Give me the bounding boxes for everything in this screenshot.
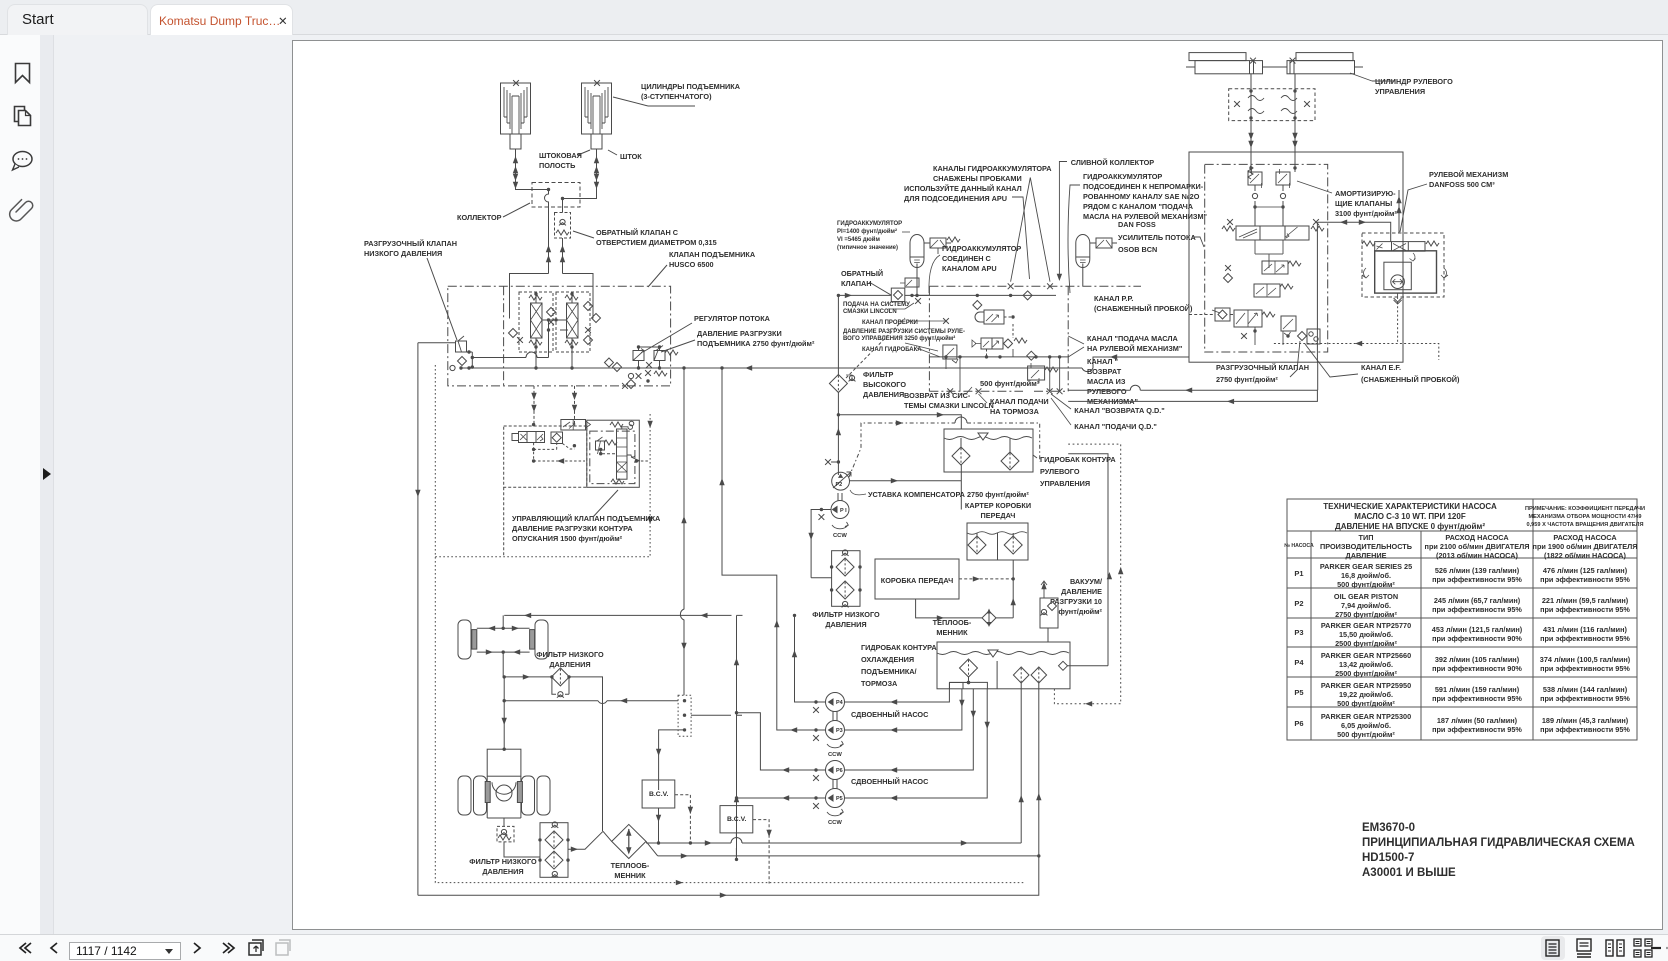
B.C.V. valve 2 (720, 806, 753, 833)
steering unit gerotor (1362, 251, 1448, 304)
pilot valve b (1254, 284, 1293, 297)
svg-text:ДАВЛЕНИЕ РАЗГРУЗКИ: ДАВЛЕНИЕ РАЗГРУЗКИ (697, 329, 782, 338)
rear brake packs (485, 782, 522, 803)
label: steering tank (1040, 455, 1116, 488)
rear axle differential housing (487, 749, 521, 818)
label: return from steering (1087, 357, 1138, 406)
svg-text:ДЛЯ ПОДСОЕДИНЕНИЯ APU: ДЛЯ ПОДСОЕДИНЕНИЯ APU (904, 194, 1007, 203)
svg-text:(1822 об/мин НАСОСА): (1822 об/мин НАСОСА) (1544, 551, 1626, 560)
label: 500 psi (980, 379, 1040, 388)
svg-text:КАНАЛ ГИДРОБАКА: КАНАЛ ГИДРОБАКА (862, 347, 922, 353)
svg-text:EM3670-0: EM3670-0 (1362, 822, 1415, 834)
comments icon (13, 152, 33, 171)
svg-text:ДАВЛЕНИЕ: ДАВЛЕНИЕ (1346, 551, 1387, 560)
svg-text:453 л/мин (121,5 гал/мин): 453 л/мин (121,5 гал/мин) (1432, 625, 1523, 634)
brake manifold dash-dot box (929, 286, 1068, 391)
svg-text:591 л/мин (159 гал/мин): 591 л/мин (159 гал/мин) (1435, 685, 1520, 694)
wire: x=736.5 down-run (736, 615, 738, 859)
label: low pressure relief valve (364, 239, 457, 258)
svg-text:ЦИЛИНДР РУЛЕВОГО: ЦИЛИНДР РУЛЕВОГО (1375, 77, 1453, 86)
svg-text:500 фунт/дюйм²: 500 фунт/дюйм² (1337, 580, 1395, 589)
svg-text:500 фунт/дюйм²: 500 фунт/дюйм² (1337, 699, 1395, 708)
svg-text:P4: P4 (1294, 658, 1304, 667)
shock valve 1 (1248, 166, 1262, 199)
label: tank port (862, 347, 922, 353)
svg-text:ДАВЛЕНИЕ РАЗГРУЗКИ СИСТЕМЫ РУЛ: ДАВЛЕНИЕ РАЗГРУЗКИ СИСТЕМЫ РУЛЕ- (843, 329, 965, 335)
svg-text:КАНАЛ "ПОДАЧИ Q.D.": КАНАЛ "ПОДАЧИ Q.D." (1074, 422, 1157, 431)
svg-text:7,94 дюйм/об.: 7,94 дюйм/об. (1341, 601, 1391, 610)
svg-text:АМОРТИЗИРУЮ-: АМОРТИЗИРУЮ- (1335, 189, 1396, 198)
svg-text:КАРТЕР КОРОБКИ: КАРТЕР КОРОБКИ (965, 501, 1031, 510)
svg-text:476 л/мин (125 гал/мин): 476 л/мин (125 гал/мин) (1543, 566, 1628, 575)
svg-text:ГИДРОБАК КОНТУРА: ГИДРОБАК КОНТУРА (861, 643, 937, 652)
svg-text:CCW: CCW (828, 820, 842, 826)
pilot valve a (1262, 261, 1301, 274)
pump rotation CCW (832, 522, 848, 529)
pages icon (15, 107, 31, 126)
label: hoist valve HUSCO 6500 (669, 250, 756, 269)
pilot solenoid valve (512, 432, 545, 443)
svg-text:РАСХОД НАСОСА: РАСХОД НАСОСА (1553, 533, 1617, 542)
svg-text:ОТВЕРСТИЕМ ДИАМЕТРОМ 0,315: ОТВЕРСТИЕМ ДИАМЕТРОМ 0,315 (596, 238, 717, 247)
svg-text:OIL GEAR PISTON: OIL GEAR PISTON (1334, 592, 1398, 601)
label: drain collector (1071, 158, 1155, 167)
hoist spool 2 (565, 294, 578, 347)
label: low pressure filter (front) (536, 650, 604, 669)
svg-text:РОВАННОМУ КАНАЛУ SAE №2O: РОВАННОМУ КАНАЛУ SAE №2O (1083, 192, 1200, 201)
port symbols around spools (509, 329, 518, 338)
label: vacuum relief (1050, 577, 1102, 616)
wire: heat exchanger out long line (658, 689, 1039, 856)
svg-text:19,22 дюйм/об.: 19,22 дюйм/об. (1339, 690, 1393, 699)
leader V to plugged ports (1011, 178, 1050, 282)
pdf page (292, 40, 1663, 930)
svg-text:ОБРАТНЫЙ КЛАПАН С: ОБРАТНЫЙ КЛАПАН С (596, 228, 679, 237)
svg-text:ОБРАТНЫЙ: ОБРАТНЫЙ (841, 269, 883, 278)
wire: cooling return long line (646, 689, 1021, 843)
amplifier proportional spool (1222, 219, 1324, 240)
svg-text:при эффективности 95%: при эффективности 95% (1432, 725, 1522, 734)
accumulator 1 bleed valve (930, 238, 946, 248)
svg-text:СЛИВНОЙ КОЛЛЕКТОР: СЛИВНОЙ КОЛЛЕКТОР (1071, 158, 1155, 167)
label: rod (620, 152, 642, 161)
svg-text:DANFOSS 500 CM³: DANFOSS 500 CM³ (1429, 180, 1495, 189)
label: low pressure filter (rear) (469, 857, 537, 876)
svg-text:ТЕПЛООБ-: ТЕПЛООБ- (933, 618, 972, 627)
rear axle: right wheels (522, 776, 535, 815)
hoist spool 1 (529, 294, 542, 347)
label: accumulator ports plugged (933, 164, 1052, 183)
label: hoist control valve (512, 514, 661, 543)
pump P4 (826, 693, 845, 712)
svg-text:УСТАВКА КОМПЕНСАТОРА 2750 фунт: УСТАВКА КОМПЕНСАТОРА 2750 фунт/дюйм² (868, 490, 1029, 499)
svg-text:PARKER GEAR NTP25950: PARKER GEAR NTP25950 (1321, 681, 1411, 690)
steering cylinder right (1263, 53, 1364, 74)
svg-text:фунт/дюйм²: фунт/дюйм² (1058, 607, 1102, 616)
svg-text:P3: P3 (1294, 628, 1303, 637)
svg-text:при эффективности 95%: при эффективности 95% (1540, 664, 1630, 673)
accumulator charge valve w/ gauge (972, 338, 1027, 349)
hoist cylinder 1 (3-stage telescopic) (501, 80, 531, 149)
label: return from lincoln (904, 391, 994, 410)
svg-text:ШТОКОВАЯ: ШТОКОВАЯ (539, 151, 582, 160)
svg-text:500 фунт/дюйм²: 500 фунт/дюйм² (1337, 730, 1395, 739)
svg-text:ТЕХНИЧЕСКИЕ ХАРАКТЕРИСТИКИ НАС: ТЕХНИЧЕСКИЕ ХАРАКТЕРИСТИКИ НАСОСА (1323, 502, 1497, 511)
svg-text:при эффективности 95%: при эффективности 95% (1540, 725, 1630, 734)
svg-text:(СНАБЖЕННЫЙ ПРОБКОЙ): (СНАБЖЕННЫЙ ПРОБКОЙ) (1361, 375, 1460, 384)
svg-text:HD1500-7: HD1500-7 (1362, 852, 1414, 864)
wire: cyl1 rod line down to collector (516, 149, 549, 190)
low pressure relief valve (left section) (456, 341, 467, 352)
svg-text:ДАВЛЕНИЯ: ДАВЛЕНИЯ (825, 620, 866, 629)
label: supply QD port (1074, 422, 1157, 431)
svg-text:СДВОЕННЫЙ НАСОС: СДВОЕННЫЙ НАСОС (851, 710, 929, 719)
left sidebar (0, 35, 40, 934)
wire: steering unit riser (1398, 190, 1400, 233)
pilot check ball (551, 432, 563, 444)
node dots on gallery (459, 366, 462, 369)
svg-text:КАНАЛ "ПОДАЧА МАСЛА: КАНАЛ "ПОДАЧА МАСЛА (1087, 334, 1178, 343)
svg-text:МАСЛО C-3 10 WT. ПРИ 120F: МАСЛО C-3 10 WT. ПРИ 120F (1354, 512, 1466, 521)
front brake packs (472, 630, 535, 650)
svg-text:P5: P5 (1294, 688, 1303, 697)
label: transmission sump (965, 501, 1031, 520)
transmission sump tank (967, 523, 1028, 560)
check valve with 0.315 orifice (555, 213, 571, 239)
suspension cushion box (dashed) (1229, 89, 1315, 121)
svg-text:ВОГО УПРАВЛЕНИЯ 3250 фунт/дюйм: ВОГО УПРАВЛЕНИЯ 3250 фунт/дюйм² (843, 335, 955, 342)
svg-text:6,05 дюйм/об.: 6,05 дюйм/об. (1341, 721, 1391, 730)
svg-text:ПРОИЗВОДИТЕЛЬНОСТЬ: ПРОИЗВОДИТЕЛЬНОСТЬ (1320, 542, 1412, 551)
label: heat exchanger (611, 861, 650, 880)
svg-text:при эффективности 95%: при эффективности 95% (1540, 634, 1630, 643)
svg-text:КАНАЛОМ APU: КАНАЛОМ APU (942, 264, 997, 273)
svg-text:РУЛЕВОГО: РУЛЕВОГО (1087, 387, 1127, 396)
svg-text:392 л/мин (105 гал/мин): 392 л/мин (105 гал/мин) (1435, 655, 1520, 664)
leader rod cavity (578, 150, 590, 155)
front axle: right wheel (535, 620, 548, 659)
svg-text:УПРАВЛЕНИЯ: УПРАВЛЕНИЯ (1375, 87, 1425, 96)
hoist relief 2750 valve (654, 351, 665, 361)
wire: steering return standpipe (1068, 454, 1108, 666)
svg-text:PARKER GEAR SERIES 25: PARKER GEAR SERIES 25 (1320, 562, 1412, 571)
label: main tank (861, 643, 937, 688)
rear low pressure filter (538, 822, 569, 878)
wire: gearbox to heat exchanger (916, 599, 1014, 618)
svg-text:ГИДРОАККУМУЛЯТОР: ГИДРОАККУМУЛЯТОР (942, 244, 1021, 253)
wire: filter output to heat exchanger (568, 831, 603, 849)
svg-text:ПРИМЕЧАНИЕ: КОЭФФИЦИЕНТ ПЕРЕДА: ПРИМЕЧАНИЕ: КОЭФФИЦИЕНТ ПЕРЕДАЧИ (1525, 506, 1645, 512)
svg-text:VI =5465 дюйм: VI =5465 дюйм (837, 236, 880, 243)
copy page icon (249, 940, 263, 955)
svg-text:ПОДАЧА НА СИСТЕМУ: ПОДАЧА НА СИСТЕМУ (843, 302, 910, 308)
svg-text:РУЛЕВОГО: РУЛЕВОГО (1040, 467, 1080, 476)
label: steering relief 3250 (843, 329, 965, 342)
wire: P2 load-sense dashed line (849, 423, 1040, 477)
label: return QD port (1074, 406, 1164, 415)
label: check port (862, 320, 918, 326)
svg-text:ТИП: ТИП (1359, 533, 1374, 542)
svg-text:при эффективности 90%: при эффективности 90% (1432, 664, 1522, 673)
svg-text:ИСПОЛЬЗУЙТЕ ДАННЫЙ КАНАЛ: ИСПОЛЬЗУЙТЕ ДАННЫЙ КАНАЛ (904, 184, 1022, 193)
svg-text:при эффективности 95%: при эффективности 95% (1540, 575, 1630, 584)
heat exchanger (hoist/brake cooling) (603, 824, 658, 858)
svg-text:(2013 об/мин НАСОСА): (2013 об/мин НАСОСА) (1436, 551, 1518, 560)
label: accumulator connected to SAE20 (1083, 172, 1207, 221)
svg-text:245 л/мин (65,7 гал/мин): 245 л/мин (65,7 гал/мин) (1434, 596, 1521, 605)
svg-text:CCW: CCW (828, 752, 842, 758)
X plugs on manifold bottom (947, 388, 953, 394)
label: collector (457, 213, 502, 222)
svg-text:ПЕРЕДАЧ: ПЕРЕДАЧ (981, 511, 1016, 520)
rear axle: left wheels (458, 776, 471, 815)
steering unit control valve (1362, 241, 1439, 251)
wire: amp to steering unit supply (1317, 222, 1390, 362)
flow regulator valve (633, 351, 644, 361)
svg-text:ФИЛЬТР: ФИЛЬТР (863, 370, 894, 379)
svg-text:РУЛЕВОЙ МЕХАНИЗМ: РУЛЕВОЙ МЕХАНИЗМ (1429, 170, 1508, 179)
label: cylinders (641, 82, 741, 101)
svg-text:НА ТОРМОЗА: НА ТОРМОЗА (990, 407, 1040, 416)
flow amplifier block (1189, 152, 1403, 362)
svg-text:P4: P4 (836, 700, 844, 706)
view mode icons (1528, 935, 1668, 961)
svg-text:УПРАВЛЕНИЯ: УПРАВЛЕНИЯ (1040, 479, 1090, 488)
svg-text:УСИЛИТЕЛЬ ПОТОКА: УСИЛИТЕЛЬ ПОТОКА (1118, 233, 1196, 242)
front axle: left wheel (458, 620, 471, 659)
paperclip icon (10, 200, 33, 221)
svg-text:ЩИЕ КЛАПАНЫ: ЩИЕ КЛАПАНЫ (1335, 199, 1392, 208)
svg-text:КОЛЛЕКТОР: КОЛЛЕКТОР (457, 213, 502, 222)
label: use this port for APU (904, 184, 1022, 203)
svg-text:P1: P1 (1294, 569, 1303, 578)
svg-text:НИЗКОГО ДАВЛЕНИЯ: НИЗКОГО ДАВЛЕНИЯ (364, 249, 442, 258)
label: accumulator connected to APU (942, 244, 1021, 273)
svg-text:B.C.V.: B.C.V. (649, 791, 669, 798)
svg-text:B.C.V.: B.C.V. (727, 816, 747, 823)
svg-text:ПОДСОЕДИНЕН К НЕПРОМАРКИ-: ПОДСОЕДИНЕН К НЕПРОМАРКИ- (1083, 182, 1204, 191)
wire: P3 lines (722, 368, 962, 730)
steering circuit tank (944, 429, 1033, 472)
label: orifice check valve (596, 228, 717, 247)
svg-text:ФИЛЬТР НИЗКОГО: ФИЛЬТР НИЗКОГО (812, 610, 880, 619)
accumulator 2 bleed valve (1096, 238, 1112, 248)
svg-text:ГИДРОАККУМУЛЯТОР: ГИДРОАККУМУЛЯТОР (1083, 172, 1162, 181)
svg-text:КАНАЛ "ВОЗВРАТА Q.D.": КАНАЛ "ВОЗВРАТА Q.D." (1074, 406, 1164, 415)
wire: P5 lines (737, 689, 988, 798)
svg-text:СМАЗКИ LINCOLN: СМАЗКИ LINCOLN (843, 309, 897, 315)
svg-text:ОХЛАЖДЕНИЯ: ОХЛАЖДЕНИЯ (861, 655, 914, 664)
svg-text:ЦИЛИНДРЫ ПОДЪЕМНИКА: ЦИЛИНДРЫ ПОДЪЕМНИКА (641, 82, 741, 91)
wire: spools to main gallery (536, 347, 572, 368)
label: flow regulator (694, 314, 771, 323)
wire: left main drop line (417, 343, 419, 895)
label: EF port (1361, 363, 1460, 384)
svg-text:DAN FOSS: DAN FOSS (1118, 220, 1156, 229)
svg-text:16,8 дюйм/об.: 16,8 дюйм/об. (1341, 571, 1391, 580)
svg-text:ФИЛЬТР НИЗКОГО: ФИЛЬТР НИЗКОГО (536, 650, 604, 659)
spool pilot dashed boxes (519, 292, 553, 352)
wire: pump pressure riser x=838.4 (837, 295, 839, 475)
svg-text:№ НАСОСА: № НАСОСА (1284, 543, 1314, 549)
svg-text:РАЗГРУЗОЧНЫЙ КЛАПАН: РАЗГРУЗОЧНЫЙ КЛАПАН (1216, 363, 1309, 372)
sidebar expander arrow (43, 468, 51, 480)
front low pressure filter (503, 676, 552, 678)
steering relief valve (943, 345, 957, 359)
hoist valve block dash-dot outline (448, 286, 671, 386)
svg-text:МЕННИК: МЕННИК (614, 871, 646, 880)
pump P1 (parker gear) (831, 501, 849, 519)
svg-text:3100 фунт/дюйм²: 3100 фунт/дюйм² (1335, 209, 1397, 218)
svg-text:ДАВЛЕНИЯ: ДАВЛЕНИЯ (482, 867, 523, 876)
svg-text:ГИДРОАККУМУЛЯТОР: ГИДРОАККУМУЛЯТОР (837, 221, 902, 227)
svg-text:2750 фунт/дюйм²: 2750 фунт/дюйм² (1216, 375, 1278, 384)
svg-text:ВОЗВРАТ ИЗ СИС-: ВОЗВРАТ ИЗ СИС- (904, 391, 971, 400)
wire: drain collector dash-dot (929, 285, 1141, 287)
label: heat exchanger (transmission) (933, 618, 972, 637)
svg-text:(типичное значение): (типичное значение) (837, 245, 898, 251)
wire: P2/P1 shaft (838, 493, 842, 501)
svg-text:при эффективности 95%: при эффективности 95% (1540, 605, 1630, 614)
svg-text:ВЫСОКОГО: ВЫСОКОГО (863, 380, 906, 389)
svg-text:ДАВЛЕНИЯ: ДАВЛЕНИЯ (863, 390, 904, 399)
label: accumulator specs (837, 221, 902, 251)
svg-text:ОПУСКАНИЯ 1500 фунт/дюйм²: ОПУСКАНИЯ 1500 фунт/дюйм² (512, 534, 623, 543)
label: steering cylinder (1375, 77, 1453, 96)
svg-text:МАСЛА ИЗ: МАСЛА ИЗ (1087, 377, 1126, 386)
high pressure filter (829, 375, 847, 393)
label: hoist relief pressure 2750 (697, 329, 815, 348)
svg-text:ДАВЛЕНИЕ НА ВПУСКЕ 0 фунт/дюйм: ДАВЛЕНИЕ НА ВПУСКЕ 0 фунт/дюйм² (1335, 522, 1485, 531)
svg-text:2500 фунт/дюйм²: 2500 фунт/дюйм² (1335, 639, 1397, 648)
svg-text:ТОРМОЗА: ТОРМОЗА (861, 679, 898, 688)
leader rod (608, 150, 617, 155)
front axle lines (477, 615, 530, 677)
tab bar (0, 0, 1668, 35)
wire: cyl2 rod line down to collector (563, 149, 597, 199)
svg-text:при эффективности 95%: при эффективности 95% (1540, 694, 1630, 703)
heat exchanger (transmission) (982, 609, 996, 628)
svg-text:PARKER GEAR NTP25770: PARKER GEAR NTP25770 (1321, 621, 1411, 630)
label: PP port (1094, 294, 1193, 313)
label: high pressure filter (863, 370, 906, 399)
pump P2 (oil gear piston) (832, 472, 850, 490)
svg-text:при эффективности 90%: при эффективности 90% (1432, 634, 1522, 643)
hoist valve HUSCO 6500: solid cap (510, 274, 594, 319)
bottom toolbar (0, 934, 1668, 961)
svg-text:P6: P6 (1294, 719, 1303, 728)
wire: collector down to hoist valve (549, 207, 563, 274)
svg-text:189 л/мин (45,3 гал/мин): 189 л/мин (45,3 гал/мин) (1542, 716, 1629, 725)
leader to cylinder 2 (613, 97, 695, 106)
wire: gearbox load line dashed (959, 578, 1013, 580)
svg-text:P6: P6 (836, 768, 843, 774)
svg-text:2500 фунт/дюйм²: 2500 фунт/дюйм² (1335, 669, 1397, 678)
wire: return into steering tank (838, 415, 961, 429)
svg-text:PARKER GEAR NTP25300: PARKER GEAR NTP25300 (1321, 712, 1411, 721)
svg-text:ДАВЛЕНИЯ: ДАВЛЕНИЯ (549, 660, 590, 669)
svg-text:OSOB BCN: OSOB BCN (1118, 245, 1157, 254)
shuttle check (1298, 329, 1321, 344)
svg-text:P3: P3 (836, 728, 843, 734)
steering unit (danfoss) dashed box (1362, 233, 1444, 297)
steering cylinder left (1186, 53, 1263, 74)
label: compensator setting (868, 490, 1029, 499)
svg-text:PI=1400 фунт/дюйм²: PI=1400 фунт/дюйм² (837, 228, 897, 235)
pilot lines inside assembly (534, 443, 585, 461)
svg-text:МЕХАНИЗМА ОТБОРА МОЩНОСТИ 47/4: МЕХАНИЗМА ОТБОРА МОЩНОСТИ 47/49 (1529, 514, 1642, 520)
label: oil supply to steering (1087, 334, 1182, 353)
svg-text:СОЕДИНЕН С: СОЕДИНЕН С (942, 254, 992, 263)
svg-text:HUSCO 6500: HUSCO 6500 (669, 260, 714, 269)
pump P5 (826, 789, 845, 808)
pilot 2-position valve (561, 420, 591, 431)
svg-text:P2: P2 (836, 482, 843, 488)
tank breather valve (1040, 581, 1058, 642)
svg-text:(3-СТУПЕНЧАТОГО): (3-СТУПЕНЧАТОГО) (641, 92, 712, 101)
svg-text:15,50 дюйм/об.: 15,50 дюйм/об. (1339, 630, 1393, 639)
svg-text:0,959 X ЧАСТОТА ВРАЩЕНИЯ ДВИГА: 0,959 X ЧАСТОТА ВРАЩЕНИЯ ДВИГАТЕЛЯ (1527, 522, 1644, 528)
svg-text:538 л/мин (144 гал/мин): 538 л/мин (144 гал/мин) (1543, 685, 1628, 694)
wire: supply down-run x=684 (680, 368, 684, 695)
svg-text:КАНАЛ P.P.: КАНАЛ P.P. (1094, 294, 1133, 303)
pump P3 (826, 721, 845, 740)
svg-text:УПРАВЛЯЮЩИЙ КЛАПАН ПОДЪЕМНИКА: УПРАВЛЯЮЩИЙ КЛАПАН ПОДЪЕМНИКА (512, 514, 661, 523)
B.C.V. valve 1 (642, 780, 675, 808)
bookmark icon (16, 64, 30, 83)
wire: supply return below amp (1317, 362, 1319, 390)
cushion orifice symbols (1248, 96, 1264, 114)
svg-text:ВАКУУМ/: ВАКУУМ/ (1070, 577, 1102, 586)
svg-text:РАЗГРУЗОЧНЫЙ КЛАПАН: РАЗГРУЗОЧНЫЙ КЛАПАН (364, 239, 457, 248)
label: low pressure filter (transmission) (812, 610, 880, 629)
gearbox (875, 559, 959, 599)
svg-text:ДАВЛЕНИЕ: ДАВЛЕНИЕ (1061, 587, 1102, 596)
brake charge valve (975, 310, 1013, 326)
svg-text:187 л/мин (50 гал/мин): 187 л/мин (50 гал/мин) (1437, 716, 1518, 725)
pilot relief valve (596, 441, 605, 450)
svg-text:СНАБЖЕНЫ ПРОБКАМИ: СНАБЖЕНЫ ПРОБКАМИ (933, 174, 1022, 183)
svg-text:РЕГУЛЯТОР ПОТОКА: РЕГУЛЯТОР ПОТОКА (694, 314, 771, 323)
label: steering mechanism danfoss (1429, 170, 1508, 189)
node: collector ports, crossover jog (545, 190, 549, 208)
svg-text:КАНАЛЫ ГИДРОАККУМУЛЯТОРА: КАНАЛЫ ГИДРОАККУМУЛЯТОРА (933, 164, 1052, 173)
collector (dashed manifold) (532, 183, 580, 208)
brake manifold (dotted) (678, 695, 691, 736)
wire: main pressure gallery (418, 343, 1189, 368)
pump P6 (826, 761, 845, 780)
svg-text:431 л/мин (116 гал/мин): 431 л/мин (116 гал/мин) (1543, 625, 1627, 634)
small symbols right section (605, 358, 614, 367)
svg-text:(СНАБЖЕННЫЙ ПРОБКОЙ): (СНАБЖЕННЫЙ ПРОБКОЙ) (1094, 304, 1193, 313)
wire: P1 suction from filter (811, 510, 832, 578)
svg-text:P I: P I (840, 508, 847, 514)
shock valve 2 (1276, 169, 1290, 199)
label: check valve (841, 269, 883, 288)
svg-text:ПОЛОСТЬ: ПОЛОСТЬ (539, 161, 575, 170)
transmission low pressure filter (830, 550, 862, 608)
svg-text:A30001 И ВЫШЕ: A30001 И ВЫШЕ (1362, 867, 1456, 879)
hoist pilot valve assembly (dashed) (504, 426, 587, 487)
svg-text:ДАВЛЕНИЕ РАЗГРУЗКИ КОНТУРА: ДАВЛЕНИЕ РАЗГРУЗКИ КОНТУРА (512, 524, 633, 533)
svg-text:КАНАЛ ": КАНАЛ " (1087, 357, 1118, 366)
label: dan foss flow amplifier (1118, 220, 1196, 254)
check valve to lube (891, 288, 905, 302)
accumulator 2 (1076, 235, 1090, 268)
svg-text:НА РУЛЕВОЙ МЕХАНИЗМ": НА РУЛЕВОЙ МЕХАНИЗМ" (1087, 344, 1182, 353)
unloading valve 2750 (1234, 310, 1275, 327)
svg-text:РЯДОМ С КАНАЛОМ "ПОДАЧА: РЯДОМ С КАНАЛОМ "ПОДАЧА (1083, 202, 1194, 211)
